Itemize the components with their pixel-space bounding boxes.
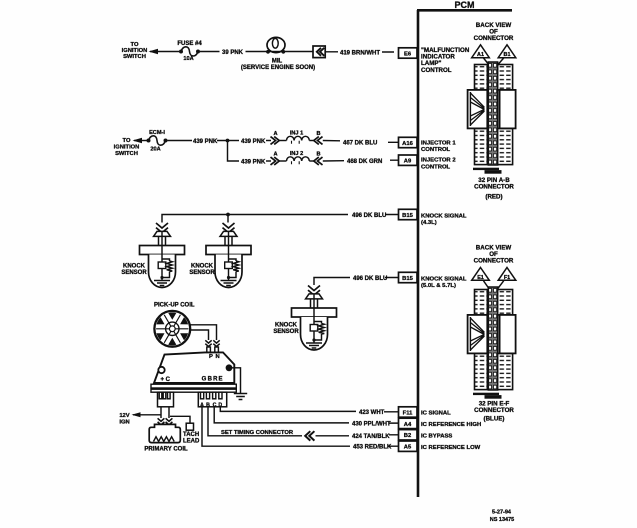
- label: INJECTOR 2 CONTROL: [421, 158, 456, 171]
- svg-text:R: R: [213, 377, 218, 383]
- svg-text:B1: B1: [504, 52, 511, 58]
- label: BACK VIEW OF CONNECTOR (A-B): [474, 22, 514, 42]
- wire 467 DK BLU: [323, 140, 399, 146]
- svg-text:PICK-UP COIL: PICK-UP COIL: [154, 303, 195, 309]
- svg-text:B15: B15: [402, 276, 413, 282]
- svg-text:SENSOR: SENSOR: [189, 270, 215, 276]
- svg-text:PRIMARY COIL: PRIMARY COIL: [144, 447, 188, 453]
- wire 430 PPL/WHT (pin C to A4): [214, 407, 398, 428]
- wire 439 PNK: [168, 139, 227, 145]
- label: KNOCK SENSOR (2): [189, 264, 215, 277]
- connector pins P N (chevrons): [205, 340, 219, 352]
- svg-text:+ C: + C: [161, 377, 171, 383]
- leader line A1: [484, 58, 491, 67]
- label: KNOCK SENSOR (3): [273, 323, 299, 336]
- wire: left block pin 2 / tach junction: [168, 407, 170, 418]
- svg-text:439 PNK: 439 PNK: [241, 139, 266, 145]
- svg-text:KNOCK SIGNAL: KNOCK SIGNAL: [421, 213, 467, 219]
- pick-up coil: [154, 311, 190, 347]
- label 12V IGN: [119, 413, 129, 426]
- wire 39 PNK: [200, 50, 267, 56]
- svg-text:G: G: [202, 377, 207, 383]
- svg-text:NS 13475: NS 13475: [490, 517, 514, 523]
- wire: arrow to ignition switch (MIL circuit): [149, 49, 159, 54]
- svg-text:CONNECTOR: CONNECTOR: [474, 258, 514, 265]
- connector block A B C D: [198, 392, 226, 408]
- svg-text:TO: TO: [123, 138, 131, 144]
- svg-text:IC BYPASS: IC BYPASS: [421, 433, 452, 439]
- label: 32 PIN E-F CONNECTOR (BLUE): [474, 401, 514, 423]
- fuse ECM-I 20A: [147, 130, 168, 153]
- svg-text:A: A: [273, 152, 277, 158]
- wire: left block pin 1 to primary coil: [160, 407, 162, 418]
- svg-text:453 RED/BLK: 453 RED/BLK: [353, 445, 392, 451]
- svg-text:A4: A4: [404, 422, 412, 428]
- wire: [285, 51, 313, 53]
- set timing connector (double chevron): [305, 431, 314, 440]
- svg-text:CONNECTOR: CONNECTOR: [474, 184, 514, 191]
- label: 32 PIN A-B CONNECTOR (RED): [474, 177, 514, 201]
- fuse FUSE #4 10A: [177, 41, 202, 62]
- label: KNOCK SIGNAL (4.3L): [421, 213, 467, 226]
- svg-text:B15: B15: [402, 213, 413, 219]
- svg-text:INJECTOR 2: INJECTOR 2: [421, 158, 456, 164]
- module base plate: [151, 384, 236, 392]
- label: INJECTOR 1 CONTROL: [421, 140, 456, 153]
- svg-text:CONTROL: CONTROL: [421, 164, 451, 170]
- terminal E6: [399, 48, 418, 58]
- ignition module body: [154, 352, 234, 383]
- svg-text:FUSE #4: FUSE #4: [177, 41, 202, 47]
- pin marker F1 (triangle): [498, 268, 516, 281]
- svg-text:A5: A5: [404, 445, 412, 451]
- svg-text:39 PNK: 39 PNK: [222, 50, 244, 56]
- svg-text:A16: A16: [402, 141, 413, 147]
- svg-text:CONTROL: CONTROL: [421, 67, 452, 74]
- svg-text:INJ 2: INJ 2: [290, 151, 303, 157]
- svg-text:IC REFERENCE HIGH: IC REFERENCE HIGH: [421, 422, 481, 428]
- label: BACK VIEW OF CONNECTOR (E-F): [474, 245, 514, 265]
- svg-text:CONNECTOR: CONNECTOR: [474, 407, 514, 414]
- connector pin A (INJ 2): [271, 152, 287, 165]
- svg-text:E6: E6: [404, 51, 412, 57]
- svg-text:TO: TO: [131, 42, 139, 48]
- svg-text:419 BRN/WHT: 419 BRN/WHT: [340, 51, 380, 57]
- svg-text:IC REFERENCE LOW: IC REFERENCE LOW: [421, 445, 481, 451]
- svg-text:TACH: TACH: [183, 432, 199, 438]
- svg-text:SWITCH: SWITCH: [115, 151, 138, 157]
- PCM boundary line: [417, 10, 512, 497]
- svg-text:KNOCK: KNOCK: [191, 264, 214, 270]
- terminal B15 (5.0L & 5.7L): [399, 272, 418, 282]
- pin marker E1 (triangle): [472, 268, 490, 281]
- svg-text:468 DK GRN: 468 DK GRN: [347, 159, 382, 165]
- svg-text:A: A: [273, 131, 277, 137]
- knock sensor 1: [140, 223, 185, 288]
- svg-text:(4.3L): (4.3L): [421, 220, 437, 226]
- connector pin A (INJ 1): [271, 131, 287, 144]
- svg-text:N: N: [216, 354, 220, 360]
- svg-text:B: B: [208, 377, 213, 383]
- svg-text:IC SIGNAL: IC SIGNAL: [421, 411, 451, 417]
- svg-text:12V: 12V: [119, 413, 129, 419]
- svg-text:CONNECTOR: CONNECTOR: [474, 35, 514, 42]
- svg-text:PCM: PCM: [455, 0, 475, 10]
- chevrons onto primary coil: [158, 418, 173, 425]
- svg-text:MIL: MIL: [272, 59, 283, 65]
- connector 32 PIN A-B (back view): [468, 62, 516, 174]
- junction (above knock sensor 2): [226, 213, 230, 217]
- wire 496 DK BLU (4.3L): [162, 213, 399, 222]
- svg-text:INJ 1: INJ 1: [290, 131, 303, 137]
- svg-text:(BLUE): (BLUE): [484, 416, 505, 423]
- wire 424 TAN/BLK (pin B through set timing connector to B2): [208, 407, 399, 440]
- connector 32 PIN E-F (back view): [468, 287, 516, 399]
- svg-text:496 DK BLU: 496 DK BLU: [352, 213, 386, 219]
- svg-text:B: B: [316, 152, 320, 158]
- wire: arrow to ignition switch (injector circuit): [133, 138, 143, 143]
- connector pin B (INJ 2): [309, 152, 322, 165]
- knock sensor 3: [292, 286, 337, 351]
- wire 423 WHT (pin D to F11): [220, 407, 398, 416]
- terminal F11: [399, 407, 418, 417]
- svg-text:439 PNK: 439 PNK: [193, 139, 218, 145]
- connector pin B (INJ 1): [309, 131, 322, 144]
- svg-text:ECM-I: ECM-I: [149, 130, 165, 136]
- inline connector (double chevron): [313, 46, 325, 58]
- svg-text:(SERVICE ENGINE SOON): (SERVICE ENGINE SOON): [241, 65, 315, 71]
- leader line F1: [496, 281, 503, 291]
- svg-text:B: B: [316, 131, 320, 137]
- wire: module to ground: [229, 368, 241, 393]
- date code: [490, 509, 514, 523]
- wire 453 RED/BLK (pin A to A5): [202, 407, 399, 451]
- terminal B15 (4.3L): [399, 209, 418, 219]
- svg-text:10A: 10A: [183, 56, 193, 62]
- svg-text:467 DK BLU: 467 DK BLU: [343, 140, 377, 146]
- svg-text:496 DK BLU: 496 DK BLU: [353, 276, 387, 282]
- wire 496 DK BLU (5.0L & 5.7L): [314, 276, 399, 285]
- svg-text:SWITCH: SWITCH: [123, 54, 146, 60]
- lamp MIL (SERVICE ENGINE SOON): [241, 37, 315, 71]
- svg-text:SENSOR: SENSOR: [273, 329, 299, 335]
- svg-text:E: E: [218, 377, 222, 383]
- label: KNOCK SENSOR (1): [121, 264, 147, 277]
- connector block (left, to primary coil): [158, 392, 174, 407]
- svg-text:A9: A9: [404, 159, 412, 165]
- pin marker A1 (triangle): [472, 45, 490, 58]
- svg-text:424 TAN/BLK: 424 TAN/BLK: [352, 434, 390, 440]
- svg-text:20A: 20A: [150, 147, 160, 153]
- terminal A16: [399, 137, 418, 147]
- leader line B1: [496, 58, 503, 67]
- knock sensor 2: [206, 223, 251, 288]
- svg-text:F1: F1: [504, 275, 510, 281]
- terminal A4: [399, 418, 418, 428]
- svg-text:439 PNK: 439 PNK: [241, 160, 266, 166]
- wire: pick-up coil to pin P: [189, 325, 217, 340]
- svg-text:423 WHT: 423 WHT: [359, 410, 385, 416]
- terminal B2: [399, 430, 418, 440]
- label TACH LEAD: [183, 432, 200, 445]
- svg-text:KNOCK: KNOCK: [275, 323, 298, 329]
- svg-text:SENSOR: SENSOR: [121, 270, 147, 276]
- tach lead box: [186, 423, 193, 430]
- svg-text:B2: B2: [404, 433, 411, 439]
- terminal A5: [399, 441, 418, 451]
- inductor INJ 2: [287, 151, 310, 164]
- wire 439 PNK (to INJ 2): [228, 141, 272, 166]
- svg-text:INJECTOR 1: INJECTOR 1: [421, 140, 456, 146]
- wire 439 PNK (to INJ 1): [229, 139, 271, 145]
- inductor INJ 1: [287, 131, 310, 144]
- label: MALFUNCTION INDICATOR LAMP CONTROL: [421, 47, 470, 74]
- wire (drop to knock sensor 2): [227, 215, 229, 223]
- wire: pick-up coil to pin N: [189, 330, 209, 340]
- svg-text:IGNITION: IGNITION: [114, 145, 140, 151]
- svg-text:KNOCK SIGNAL: KNOCK SIGNAL: [421, 276, 467, 282]
- svg-text:(5.0L & 5.7L): (5.0L & 5.7L): [421, 283, 456, 289]
- pin marker B1 (triangle): [498, 45, 516, 58]
- svg-text:IGN: IGN: [119, 420, 129, 426]
- primary coil: [149, 424, 180, 442]
- wire 419 BRN/WHT: [325, 51, 394, 57]
- svg-text:430 PPL/WHT: 430 PPL/WHT: [352, 422, 391, 428]
- leader line E1: [484, 281, 491, 291]
- terminal A9: [399, 155, 418, 165]
- ground (module): [234, 394, 247, 400]
- svg-text:A1: A1: [477, 52, 484, 58]
- svg-text:(RED): (RED): [485, 194, 502, 201]
- svg-text:CONTROL: CONTROL: [421, 147, 451, 153]
- wire 468 DK GRN: [323, 159, 399, 165]
- svg-text:LEAD: LEAD: [183, 439, 200, 445]
- svg-text:KNOCK: KNOCK: [123, 264, 146, 270]
- svg-text:P: P: [209, 354, 213, 360]
- wire: tach lead: [170, 416, 190, 423]
- wire: 12V IGN arrow: [132, 412, 162, 417]
- svg-text:5-27-94: 5-27-94: [492, 509, 512, 515]
- label: KNOCK SIGNAL (5.0L & 5.7L): [421, 276, 467, 289]
- junction: [226, 139, 230, 143]
- svg-text:F11: F11: [403, 410, 413, 416]
- svg-text:E1: E1: [477, 275, 484, 281]
